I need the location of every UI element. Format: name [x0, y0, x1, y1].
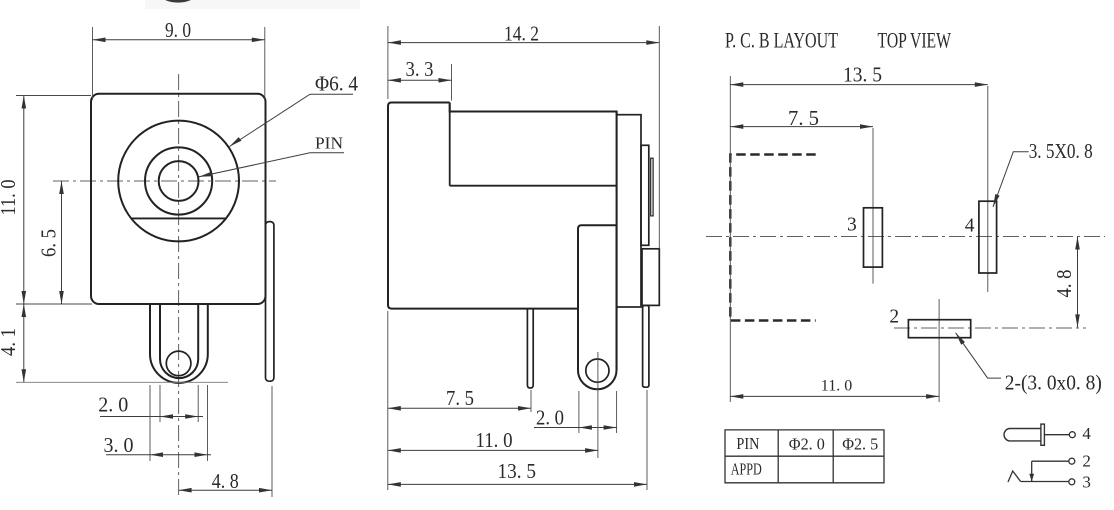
dim 11.0 extension [16, 95, 91, 97]
dim 2.0 extension lines (middle) [578, 391, 580, 433]
jack body front view [91, 94, 266, 304]
center pin circle [159, 161, 199, 201]
front lug outer outline [150, 304, 208, 383]
dim 7.5 extension line (middle) [530, 390, 532, 412]
barrel section internal lines [450, 103, 617, 186]
dim 11.0 line [23, 96, 25, 305]
svg-text:4. 8: 4. 8 [212, 469, 239, 493]
pad 3 center extension [872, 128, 874, 284]
svg-text:11. 0: 11. 0 [821, 378, 852, 395]
svg-text:2: 2 [889, 307, 899, 328]
schematic plug bar [1041, 424, 1045, 445]
leader 3.5X0.8 [993, 152, 1029, 207]
wire: left-view vertical centerline [178, 74, 180, 497]
dim 4.8 line [179, 489, 272, 491]
pad 2 centerline [894, 327, 1086, 329]
svg-text:3: 3 [1082, 473, 1091, 492]
pin table grid [725, 430, 884, 483]
svg-text:4. 1: 4. 1 [0, 328, 20, 356]
lower blade side view [642, 249, 659, 306]
barrel middle circle [145, 147, 212, 214]
svg-text:2: 2 [1082, 452, 1091, 471]
schematic plug barrel [1004, 429, 1041, 441]
dim 13.5 line (middle) [388, 483, 647, 485]
dim 2.0 line [100, 416, 203, 418]
upper contact tab side view [641, 145, 649, 245]
logo remnant arc [159, 0, 197, 3]
leader 2-(3.0x0.8) [956, 333, 1001, 378]
dim 3.3 extension line [451, 64, 453, 101]
svg-text:3. 3: 3. 3 [406, 57, 434, 81]
pad 2 center extension [938, 299, 940, 402]
dim 7.5 line (pcb) [730, 126, 873, 128]
dim 14.2 extension lines [387, 26, 389, 99]
svg-text:2. 0: 2. 0 [536, 406, 564, 430]
terminal 2 circle [1069, 458, 1075, 464]
terminal 3 circle [1069, 479, 1075, 485]
svg-text:4: 4 [965, 216, 975, 237]
svg-text:TOP VIEW: TOP VIEW [878, 28, 952, 53]
dim 4.1 bottom extension [16, 381, 228, 383]
footprint dashed outline [730, 155, 815, 321]
svg-text:APPD: APPD [731, 460, 762, 479]
side-view top edge with step [450, 103, 617, 115]
svg-text:9. 0: 9. 0 [165, 18, 191, 42]
chord line inside barrel [131, 217, 225, 219]
svg-text:PIN: PIN [736, 434, 759, 453]
pad 3 [864, 208, 883, 267]
front lug side view [578, 225, 617, 389]
terminal 4 circle [1069, 432, 1075, 438]
svg-text:P. C. B LAYOUT: P. C. B LAYOUT [725, 28, 838, 53]
leader line PIN [199, 153, 344, 177]
svg-text:Φ6. 4: Φ6. 4 [315, 72, 358, 96]
rear pin side view [643, 305, 649, 387]
side tab (right) front view [266, 222, 274, 382]
dim 6.5 line [61, 181, 63, 304]
dim 3.3 line [388, 79, 452, 81]
front lug inner outline [160, 304, 198, 378]
dim 3.0 extension lines [149, 385, 151, 461]
switch contact arrow [1029, 474, 1034, 482]
svg-text:Φ2. 5: Φ2. 5 [842, 435, 878, 454]
wire: left-view horizontal centerline [53, 180, 276, 182]
barrel outer circle (6.4mm) [118, 121, 239, 242]
wire to terminal 2 [1032, 460, 1069, 462]
dim 3.0 line [106, 454, 211, 456]
front lug hole [166, 351, 191, 376]
side-view right edge [616, 112, 618, 371]
svg-text:11. 0: 11. 0 [476, 428, 513, 452]
dim 4.8 extension line [271, 386, 273, 497]
svg-text:2. 0: 2. 0 [98, 393, 128, 417]
svg-text:4: 4 [1082, 424, 1091, 443]
svg-text:14. 2: 14. 2 [504, 22, 539, 46]
svg-text:3: 3 [847, 215, 857, 236]
dim 11.0 line (middle) [388, 449, 598, 451]
dim 9.0 extension lines [92, 27, 94, 100]
switch wiper [1008, 471, 1021, 482]
switch branch wire [1031, 461, 1033, 481]
dim 4.1 line [23, 304, 25, 382]
pcb left extension line [729, 76, 731, 402]
rear plate side view [617, 115, 641, 307]
dim 9.0 line [93, 39, 265, 41]
svg-text:3. 5X0. 8: 3. 5X0. 8 [1029, 139, 1093, 163]
pad 4 [979, 201, 997, 273]
pad 4 center extension [987, 86, 989, 292]
dim 11.0 extension (middle leg centerline) [597, 352, 599, 458]
svg-text:3. 0: 3. 0 [104, 433, 134, 457]
svg-text:4. 8: 4. 8 [1052, 270, 1076, 298]
dim 4.8 line (pcb) [1077, 237, 1079, 328]
svg-text:11. 0: 11. 0 [0, 180, 20, 216]
wire to terminal 3 [1021, 481, 1069, 483]
dim 13.5 line (pcb) [730, 84, 988, 86]
svg-text:2-(3. 0x0. 8): 2-(3. 0x0. 8) [1005, 371, 1102, 395]
svg-text:13. 5: 13. 5 [843, 63, 882, 87]
pad 2 [908, 320, 970, 338]
dim 7.5 line (middle) [388, 407, 531, 409]
dim 2.0 extension lines [159, 385, 161, 422]
svg-text:7. 5: 7. 5 [788, 106, 819, 130]
dim 14.2 line [388, 42, 659, 44]
dim 13.5 extension lines (middle) [387, 311, 389, 490]
middle thin pin side view [527, 309, 533, 388]
svg-text:PIN: PIN [315, 134, 343, 153]
dim 2.0 line (middle) [534, 427, 617, 429]
svg-text:6. 5: 6. 5 [37, 229, 61, 257]
upper contact inner blade [651, 158, 653, 216]
dim 11.0 line (pcb) [730, 395, 939, 397]
leader line 6.4 dia [230, 94, 354, 146]
front lug hole side view [586, 359, 609, 382]
wire to terminal 4 [1044, 434, 1069, 436]
side-view body outline [388, 103, 578, 309]
svg-text:Φ2. 0: Φ2. 0 [789, 435, 825, 454]
extension line body bottom [16, 303, 92, 305]
wire: pcb main centerline [706, 236, 1105, 238]
svg-text:7. 5: 7. 5 [446, 386, 474, 410]
svg-text:13. 5: 13. 5 [498, 459, 537, 483]
